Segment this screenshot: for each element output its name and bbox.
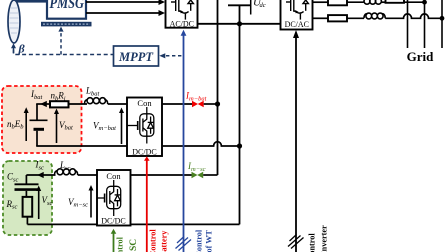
Vbat arrow xyxy=(56,114,58,144)
AC/DC IGBT symbol xyxy=(171,0,193,20)
junction dot battery bottom xyxy=(237,143,242,148)
nbRi resistor xyxy=(50,101,69,107)
grid line 2 xyxy=(424,0,426,48)
svg-text:of WT: of WT xyxy=(205,230,214,252)
turbine shaft xyxy=(12,0,47,3)
battery bottom wire xyxy=(36,145,127,147)
Isc arrow xyxy=(37,172,44,178)
svg-text:Control: Control xyxy=(308,233,317,252)
SC converter IGBT xyxy=(97,180,121,216)
dashed arrow from control line into MPPT xyxy=(166,55,184,57)
bus junction dot xyxy=(237,21,242,26)
Vm-sc arrow xyxy=(90,190,92,218)
svg-text:Control: Control xyxy=(195,229,204,252)
row2 inductor xyxy=(364,13,385,19)
black inverter control line xyxy=(295,38,297,252)
Lbat inductor xyxy=(85,98,108,104)
sc top wire xyxy=(26,174,55,176)
svg-text:DC/AC: DC/AC xyxy=(285,20,309,29)
svg-text:Inverter: Inverter xyxy=(320,225,329,252)
PMSG box xyxy=(47,0,86,19)
battery top wire xyxy=(36,103,50,105)
pitch arrow xyxy=(13,48,15,54)
supercap symbol xyxy=(25,175,27,184)
junction dot battery top xyxy=(215,101,220,106)
svg-text:dc: dc xyxy=(260,2,266,9)
svg-text:Grid: Grid xyxy=(407,49,434,64)
turbine blade xyxy=(8,0,20,43)
Vm-bat arrow xyxy=(121,113,123,145)
grid line 1 xyxy=(407,0,409,48)
Lsc inductor xyxy=(55,169,78,175)
blue hatch xyxy=(176,237,192,251)
grid phase row 2 xyxy=(313,17,329,19)
Udc bracket xyxy=(250,0,252,15)
battery bottom wire to line B with jump over line A xyxy=(162,142,240,146)
DC/AC IGBT symbol xyxy=(286,0,308,20)
green SC control line xyxy=(113,234,115,252)
SC DC/DC converter box xyxy=(97,170,131,226)
stem resistor to bottom wire xyxy=(26,217,28,225)
grid line 3 xyxy=(441,0,443,48)
svg-text:MPPT: MPPT xyxy=(118,50,154,64)
row1 junction dot xyxy=(422,0,427,5)
svg-text:Control: Control xyxy=(149,229,158,252)
row2 resistor xyxy=(328,15,347,21)
phase line a xyxy=(86,1,160,3)
svg-text:DC/DC: DC/DC xyxy=(132,148,156,157)
AC/DC converter box xyxy=(166,0,198,28)
battery emf arrow xyxy=(25,113,27,142)
measurement bar xyxy=(41,22,92,27)
phase line b xyxy=(86,12,160,14)
wire bowtie to line A xyxy=(204,103,218,105)
svg-text:SC: SC xyxy=(129,239,139,251)
row2 wire with jumps xyxy=(385,14,442,18)
Rsc resistor xyxy=(23,197,33,217)
wire converter to Im-bat xyxy=(162,103,193,105)
black hatch xyxy=(288,235,304,249)
sc bottom wire converter to line B xyxy=(131,223,240,225)
row2 junction dot xyxy=(440,16,445,21)
dashed pitch control line xyxy=(14,50,114,55)
Im-sc valve (green bowtie) xyxy=(192,172,204,178)
Vsc arrow xyxy=(38,191,40,220)
wire sc converter to Im-sc xyxy=(131,174,193,176)
blue WT control line xyxy=(183,36,185,252)
wire inductor to sc converter xyxy=(78,174,97,176)
vertical line A xyxy=(217,0,219,175)
svg-text:β: β xyxy=(18,42,26,56)
sc bottom wire xyxy=(27,223,97,225)
dashed line to measurement bar xyxy=(60,31,62,55)
wire inductor to converter xyxy=(108,103,127,105)
svg-text:DC/DC: DC/DC xyxy=(101,217,125,226)
Im-bat valve (red bowtie) xyxy=(192,101,204,107)
wire bowtie to line A corner xyxy=(203,174,217,176)
wire resistor to inductor xyxy=(69,103,88,105)
MPPT box xyxy=(114,46,159,66)
battery converter IGBT xyxy=(127,107,154,144)
row1 second resistor xyxy=(386,0,405,3)
svg-text:AC/DC: AC/DC xyxy=(170,19,194,28)
battery symbol xyxy=(36,104,38,120)
svg-text:Control: Control xyxy=(116,236,125,252)
row1 resistor xyxy=(328,0,347,5)
DC/AC converter box xyxy=(281,0,313,30)
dc-link capacitor plate xyxy=(228,4,251,6)
supercap section background box xyxy=(3,161,52,235)
row1 inductor xyxy=(364,0,381,4)
Ibat arrow xyxy=(40,101,47,107)
dc-link vertical line B xyxy=(239,6,241,224)
dc bus xyxy=(198,23,281,25)
svg-text:PMSG: PMSG xyxy=(50,0,85,12)
svg-text:Battery: Battery xyxy=(160,230,169,252)
svg-text:Con: Con xyxy=(137,98,152,108)
red battery control line xyxy=(146,161,148,252)
grid phase row 1 xyxy=(313,1,329,3)
battery DC/DC converter box xyxy=(127,98,162,157)
battery section background box xyxy=(2,86,82,153)
svg-text:Con: Con xyxy=(106,171,121,181)
